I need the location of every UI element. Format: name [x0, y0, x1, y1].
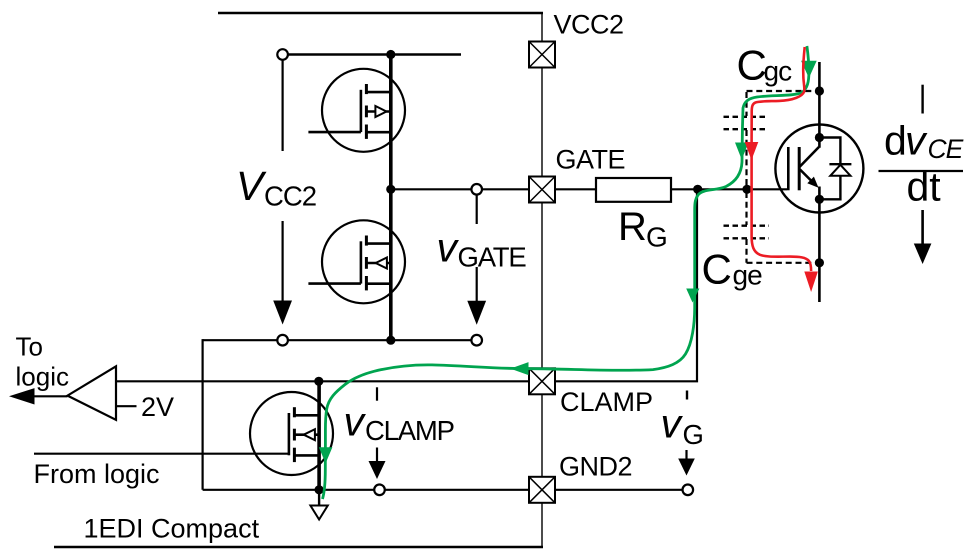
svg-text:2V: 2V	[141, 392, 174, 422]
wire comparator branch vertical	[202, 339, 204, 490]
ground	[310, 506, 327, 520]
node vG sense bottom	[683, 485, 694, 496]
terminal VCC2	[529, 42, 555, 68]
wire vGATE branch	[476, 195, 478, 302]
capacitor Cge dashed lead to emitter	[745, 239, 747, 263]
arrow green flow 4	[510, 362, 528, 375]
wire push-pull rail	[389, 55, 393, 341]
capacitor Cgc dashed plates	[724, 116, 769, 118]
terminal GND2	[529, 477, 555, 503]
transistor Q3 Miller clamp MOSFET	[250, 392, 333, 475]
svg-text:CE: CE	[928, 134, 964, 164]
diode D1 freewheel	[819, 138, 840, 165]
wire clamp FET rail	[317, 381, 321, 490]
junction IGBT emitter	[815, 195, 824, 204]
svg-text:V: V	[236, 163, 267, 209]
wire top supply	[218, 12, 543, 14]
wire clamp return from gate node	[555, 190, 697, 381]
red current path Miller displacement	[752, 47, 812, 271]
op-amp U1 comparator	[68, 366, 117, 420]
junction push-pull output node	[386, 185, 395, 194]
junction high-side drain on VCC2 rail	[386, 50, 395, 59]
node vCLAMP sense bottom	[374, 485, 385, 496]
svg-text:v: v	[661, 401, 684, 447]
wire from logic input	[34, 453, 289, 455]
arrow vGATE sense	[467, 301, 486, 325]
svg-text:C: C	[737, 42, 767, 89]
junction gate wire to Cgc/Cge	[742, 185, 751, 194]
arrow green flow 2	[735, 143, 749, 160]
svg-text:CLAMP: CLAMP	[560, 387, 653, 417]
node vGATE sense top	[471, 184, 482, 195]
wire VCC2 internal rail row	[288, 53, 461, 56]
node VCC2 sense top	[277, 49, 288, 60]
svg-text:1EDI Compact: 1EDI Compact	[84, 514, 260, 544]
capacitor Cgc dashed lead to gate node	[745, 130, 747, 187]
svg-text:CC2: CC2	[264, 181, 316, 212]
wire resistor to IGBT gate	[671, 188, 787, 190]
wire GND2 row right	[555, 489, 683, 491]
label backing vGATE voltage	[432, 224, 529, 267]
svg-text:dt: dt	[907, 164, 942, 210]
svg-text:v: v	[905, 118, 928, 164]
label backing VCC2 voltage	[228, 151, 323, 221]
arrow green flow 1	[801, 61, 817, 78]
arrow VCC2 sense	[273, 301, 292, 325]
svg-text:GATE: GATE	[556, 145, 626, 175]
svg-text:v: v	[437, 225, 460, 271]
svg-text:G: G	[646, 222, 668, 253]
capacitor Cgc dashed lead to collector	[747, 90, 819, 92]
arrow dvCE/dt	[921, 85, 923, 114]
transistor Q1 high-side MOSFET	[308, 69, 405, 152]
svg-text:CLAMP: CLAMP	[365, 415, 454, 446]
wire 2V reference tick	[116, 405, 137, 407]
svg-text:v: v	[344, 399, 367, 445]
terminal GATE	[529, 177, 555, 203]
capacitor Cge dashed plates	[724, 224, 770, 226]
svg-text:d: d	[884, 118, 907, 164]
svg-text:ge: ge	[733, 260, 763, 291]
svg-text:R: R	[618, 205, 647, 249]
green current path Miller clamp	[323, 46, 809, 499]
wire GATE to resistor	[555, 188, 596, 190]
wire VCC2 sense branch	[282, 60, 284, 302]
resistor RG	[596, 178, 671, 202]
junction gate wire to clamp return	[693, 185, 702, 194]
wire GND2 row left	[203, 489, 530, 491]
node vGATE sense bottom	[471, 335, 482, 346]
node VCC2 sense bottom	[277, 335, 288, 346]
capacitor Cge dashed lead from gate node	[745, 192, 747, 225]
wire output row	[203, 339, 472, 341]
label backing vCLAMP voltage	[340, 405, 453, 447]
svg-text:To: To	[16, 332, 43, 362]
junction clamp FET drain	[314, 377, 323, 386]
arrow green flow 5	[319, 447, 333, 463]
svg-text:gc: gc	[764, 56, 793, 87]
label backing vG voltage	[655, 410, 704, 449]
terminal CLAMP	[529, 368, 555, 394]
junction clamp FET source on GND2	[315, 485, 324, 494]
junction IGBT collector	[815, 133, 824, 142]
junction Cge to emitter	[815, 258, 824, 267]
wire chip bottom boundary	[54, 546, 543, 548]
wire clamp row left	[116, 380, 530, 382]
wire chip right boundary	[541, 13, 543, 547]
svg-text:VCC2: VCC2	[554, 10, 624, 40]
arrow red flow 1	[745, 142, 759, 160]
svg-text:From logic: From logic	[34, 459, 160, 489]
arrow vCLAMP sense	[376, 387, 378, 400]
junction Cgc to collector	[815, 86, 824, 95]
svg-text:G: G	[683, 419, 704, 450]
junction low-side source node	[386, 336, 395, 345]
svg-text:GATE: GATE	[458, 242, 527, 273]
wire gate row inside chip	[391, 188, 530, 190]
svg-text:GND2: GND2	[559, 452, 632, 482]
arrow red flow 2	[804, 272, 818, 293]
transistor Q2 low-side MOSFET	[308, 220, 405, 303]
svg-text:logic: logic	[16, 362, 69, 392]
arrow vG sense	[686, 391, 688, 400]
svg-text:C: C	[702, 246, 732, 293]
wire to logic output	[33, 395, 68, 397]
arrow green flow 3	[686, 289, 699, 303]
IGBT T1	[775, 62, 863, 302]
